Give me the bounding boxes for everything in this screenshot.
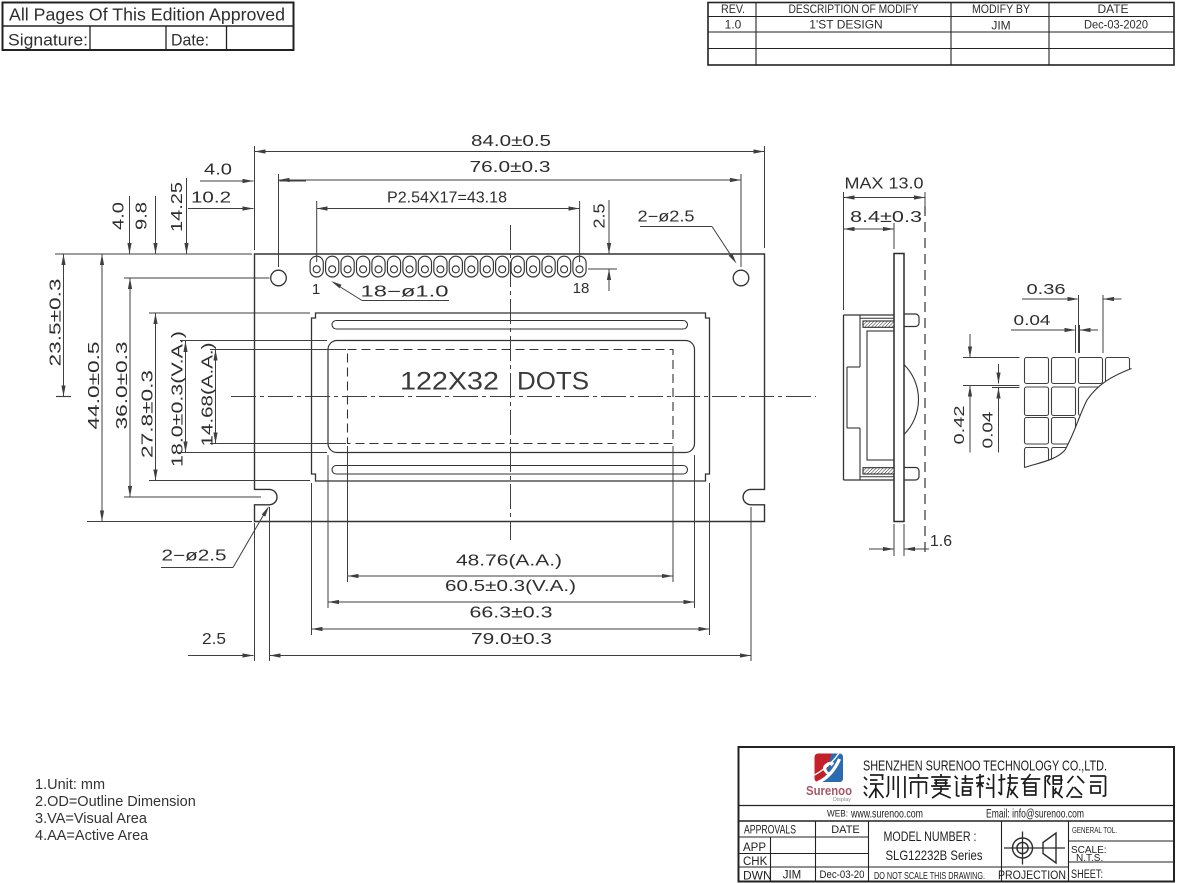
dim 60.5+-0.3 V.A. width xyxy=(327,455,329,608)
side view bezel tab bottom xyxy=(904,468,919,481)
dim 4.0 hole offset xyxy=(200,180,254,182)
svg-text:PROJECTION: PROJECTION xyxy=(998,870,1066,882)
dot detail break curve xyxy=(1025,369,1132,468)
svg-text:DO NOT SCALE THIS DRAWING.: DO NOT SCALE THIS DRAWING. xyxy=(874,871,985,882)
svg-text:0.36: 0.36 xyxy=(1027,281,1066,298)
side view bezel body xyxy=(843,315,845,480)
svg-text:79.0±0.3: 79.0±0.3 xyxy=(471,631,552,648)
mounting hole right 2-dia2.5 xyxy=(733,270,749,286)
svg-text:76.0±0.3: 76.0±0.3 xyxy=(470,159,551,176)
dim 79.0+-0.3 notch to notch xyxy=(269,507,271,661)
dim 14.25 vertical (V.A. top) xyxy=(186,178,188,254)
svg-text:JIM: JIM xyxy=(991,19,1010,33)
svg-text:84.0±0.5: 84.0±0.5 xyxy=(471,133,551,150)
svg-text:2.5: 2.5 xyxy=(202,631,226,648)
V.A. top extension line left xyxy=(180,340,327,342)
dim 76.0+-0.3 xyxy=(278,174,280,267)
dim 66.3+-0.3 bezel width xyxy=(311,483,313,635)
hole center extension line left xyxy=(124,277,270,279)
dim 1.6 PCB thickness xyxy=(893,524,895,556)
side view top gasket hatched xyxy=(860,317,894,319)
svg-text:WEB:: WEB: xyxy=(827,809,848,819)
svg-text:P2.54X17=43.18: P2.54X17=43.18 xyxy=(387,190,507,207)
svg-text:DWN: DWN xyxy=(743,869,772,883)
approval table box xyxy=(3,3,294,51)
svg-text:MODIFY BY: MODIFY BY xyxy=(972,2,1030,16)
active area A.A. dashed rect xyxy=(348,350,674,444)
svg-text:1.0: 1.0 xyxy=(725,18,742,32)
svg-text:Date:: Date: xyxy=(171,32,209,50)
svg-text:JIM: JIM xyxy=(783,870,802,882)
PCB bottom extension line left xyxy=(87,521,252,523)
svg-text:4.AA=Active Area: 4.AA=Active Area xyxy=(35,828,149,844)
svg-text:CHK: CHK xyxy=(743,856,768,868)
dim 10.2 pin1 offset xyxy=(188,208,254,210)
svg-text:8.4±0.3: 8.4±0.3 xyxy=(850,209,922,226)
svg-text:2.5: 2.5 xyxy=(592,204,609,229)
svg-text:Email: info@surenoo.com: Email: info@surenoo.com xyxy=(986,809,1084,821)
svg-text:9.8: 9.8 xyxy=(134,202,151,230)
svg-text:REV.: REV. xyxy=(721,2,745,16)
svg-text:APP: APP xyxy=(743,842,766,854)
svg-text:0.42: 0.42 xyxy=(951,406,968,445)
side view bezel tab top xyxy=(904,314,919,327)
svg-text:APPROVALS: APPROVALS xyxy=(744,823,796,837)
dim 0.42 dot height xyxy=(963,357,1020,359)
svg-text:27.8±0.3: 27.8±0.3 xyxy=(140,370,157,458)
bezel top slot xyxy=(332,321,688,330)
side view backlight step xyxy=(847,366,860,368)
svg-text:23.5±0.3: 23.5±0.3 xyxy=(48,279,65,367)
V.A. bottom extension line left xyxy=(180,452,327,454)
svg-text:SHEET:: SHEET: xyxy=(1071,869,1103,881)
svg-text:DATE: DATE xyxy=(1097,2,1128,16)
svg-text:14.68(A.A.): 14.68(A.A.) xyxy=(200,343,217,447)
dim 48.76 A.A. width xyxy=(347,446,349,582)
bezel metal frame outline with corner steps xyxy=(312,313,710,481)
side view bezel inner edge xyxy=(859,315,861,367)
center line vertical xyxy=(510,225,512,540)
svg-text:36.0±0.3: 36.0±0.3 xyxy=(114,342,131,430)
svg-text:1: 1 xyxy=(312,281,320,298)
svg-text:14.25: 14.25 xyxy=(169,182,186,232)
svg-text:2.OD=Outline Dimension: 2.OD=Outline Dimension xyxy=(35,794,196,810)
svg-text:10.2: 10.2 xyxy=(191,190,231,207)
dim 36.0+-0.3 hole to notch xyxy=(129,278,131,497)
svg-text:All Pages Of This Edition Appr: All Pages Of This Edition Approved xyxy=(9,5,285,25)
title block outer box xyxy=(739,747,1175,882)
svg-text:DESCRIPTION OF MODIFY: DESCRIPTION OF MODIFY xyxy=(789,2,919,16)
svg-text:48.76(A.A.): 48.76(A.A.) xyxy=(456,553,562,570)
svg-text:MODEL NUMBER :: MODEL NUMBER : xyxy=(884,829,977,844)
dim 8.4+-0.3 xyxy=(893,223,895,249)
svg-text:Display: Display xyxy=(833,797,851,803)
top edge extension line left xyxy=(55,253,252,255)
svg-text:SHENZHEN SURENOO TECHNOLOGY CO: SHENZHEN SURENOO TECHNOLOGY CO.,LTD. xyxy=(863,758,1107,775)
bezel bottom slot xyxy=(332,466,688,475)
title block grid lines xyxy=(739,805,1175,807)
svg-text:Dec-03-2020: Dec-03-2020 xyxy=(1084,18,1148,32)
svg-text:DATE: DATE xyxy=(831,824,860,836)
svg-text:1'ST DESIGN: 1'ST DESIGN xyxy=(809,18,882,32)
svg-text:Dec-03-20: Dec-03-20 xyxy=(820,869,865,881)
surenoo logo mark xyxy=(813,752,844,785)
notch center extension line left xyxy=(124,496,261,498)
projection symbol xyxy=(1013,838,1033,858)
svg-text:3.VA=Visual Area: 3.VA=Visual Area xyxy=(35,811,148,827)
svg-text:GENERAL TOL.: GENERAL TOL. xyxy=(1072,825,1117,835)
visual area V.A. rounded rect xyxy=(328,341,695,453)
svg-text:122X32: 122X32 xyxy=(400,368,499,396)
svg-text:60.5±0.3(V.A.): 60.5±0.3(V.A.) xyxy=(445,578,576,595)
A.A. top extension line left xyxy=(210,349,346,351)
dim 18.0+-0.3 V.A. height xyxy=(185,341,187,453)
side view max envelope dashed line xyxy=(924,206,926,556)
svg-text:MAX 13.0: MAX 13.0 xyxy=(845,176,924,193)
bezel bottom extension line left xyxy=(149,480,310,482)
dim 44.0+-0.5 overall height xyxy=(101,254,103,522)
A.A. bottom extension line left xyxy=(210,443,346,445)
svg-text:2−ø2.5: 2−ø2.5 xyxy=(638,209,695,226)
svg-text:Surenoo: Surenoo xyxy=(806,784,852,798)
dim MAX 13.0 xyxy=(843,192,845,310)
svg-text:66.3±0.3: 66.3±0.3 xyxy=(470,605,553,622)
svg-text:0.04: 0.04 xyxy=(980,412,997,449)
dim P2.54X17=43.18 pin pitch xyxy=(316,201,318,262)
svg-text:DOTS: DOTS xyxy=(517,368,589,396)
dim 2.5 bottom left xyxy=(254,523,256,661)
dim 14.68 A.A. height xyxy=(215,350,217,444)
svg-text:N.T.S.: N.T.S. xyxy=(1076,853,1103,864)
side view LCD glass xyxy=(867,331,894,460)
dim 23.5+-0.3 to centerline xyxy=(63,254,65,397)
svg-text:SLG12232B Series: SLG12232B Series xyxy=(886,847,983,863)
svg-text:18.0±0.3(V.A.): 18.0±0.3(V.A.) xyxy=(170,331,187,467)
svg-text:18: 18 xyxy=(573,280,590,297)
svg-text:18−ø1.0: 18−ø1.0 xyxy=(361,284,450,301)
svg-text:2−ø2.5: 2−ø2.5 xyxy=(162,548,227,565)
svg-text:Signature:: Signature: xyxy=(8,32,88,50)
dim 2.5 pin row offset xyxy=(588,268,617,270)
svg-text:1.6: 1.6 xyxy=(930,533,952,550)
side view lens bulge arc xyxy=(904,365,918,435)
svg-text:4.0: 4.0 xyxy=(204,162,232,179)
company name chinese pseudo glyphs xyxy=(864,774,1106,798)
svg-text:4.0: 4.0 xyxy=(111,202,128,230)
front view: PCB outline with bottom mounting notches xyxy=(255,254,765,522)
dim 9.8 vertical (bezel top) xyxy=(155,196,157,254)
dim 0.36 dot width xyxy=(1078,295,1080,353)
bezel top extension line left xyxy=(149,312,310,314)
dim 27.8+-0.3 bezel height xyxy=(155,313,157,481)
center line horizontal xyxy=(231,396,816,398)
svg-text:www.surenoo.com: www.surenoo.com xyxy=(850,809,923,821)
side view PCB 1.6 thick xyxy=(894,254,904,522)
side view bottom gasket hatched xyxy=(860,476,894,478)
mounting hole left 2-dia2.5 xyxy=(271,270,287,286)
svg-text:0.04: 0.04 xyxy=(1014,312,1051,329)
dim 4.0 vertical (hole center) xyxy=(129,196,131,254)
svg-text:1.Unit: mm: 1.Unit: mm xyxy=(35,777,105,793)
revision table box xyxy=(708,3,1174,66)
dim 0.04 dot gap vertical xyxy=(992,387,1020,389)
svg-text:44.0±0.5: 44.0±0.5 xyxy=(86,342,103,430)
dim 0.04 dot gap horizontal xyxy=(1075,325,1077,353)
pin row: 18 oval pads with dia1.0 holes xyxy=(310,256,323,277)
dim 84.0+-0.5 xyxy=(254,146,256,250)
